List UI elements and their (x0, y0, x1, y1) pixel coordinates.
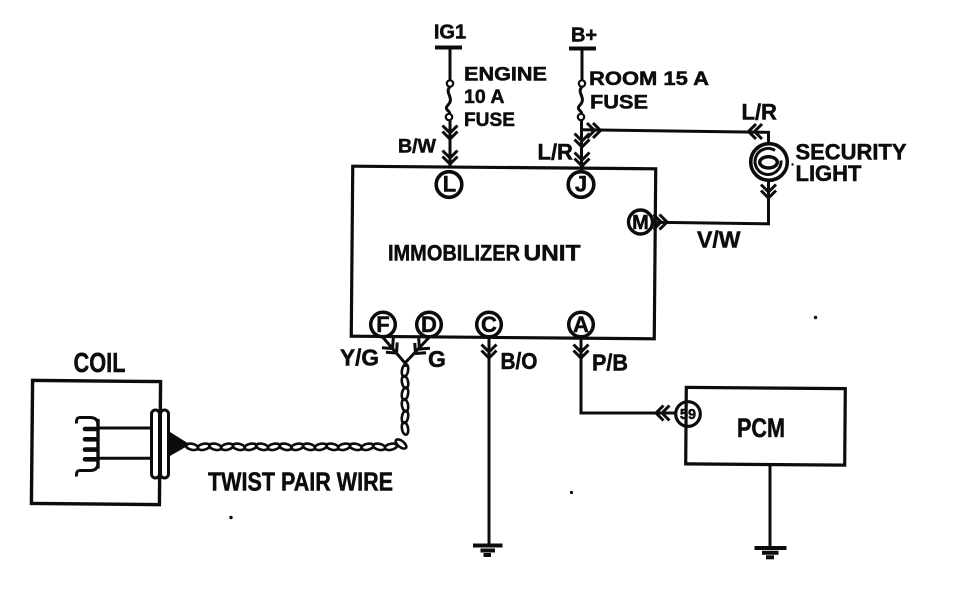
svg-text:D: D (421, 312, 437, 337)
svg-text:V/W: V/W (697, 227, 741, 253)
svg-text:ENGINE: ENGINE (464, 64, 547, 86)
svg-text:FUSE: FUSE (464, 109, 515, 131)
svg-text:TWIST PAIR WIRE: TWIST PAIR WIRE (208, 467, 393, 497)
svg-text:B/O: B/O (501, 348, 538, 374)
svg-text:A: A (573, 312, 589, 337)
svg-text:G: G (428, 346, 446, 372)
svg-text:M: M (632, 212, 649, 234)
svg-text:L: L (443, 172, 456, 197)
svg-text:F: F (376, 312, 389, 337)
svg-text:UNIT: UNIT (524, 241, 581, 266)
svg-text:10 A: 10 A (464, 86, 504, 108)
svg-text:J: J (575, 172, 587, 197)
svg-text:PCM: PCM (737, 413, 785, 443)
svg-text:L/R: L/R (538, 140, 574, 165)
svg-text:59: 59 (680, 407, 696, 423)
svg-text:C: C (481, 312, 497, 337)
svg-text:COIL: COIL (74, 347, 126, 378)
svg-text:Y/G: Y/G (340, 345, 379, 371)
svg-text:FUSE: FUSE (590, 92, 648, 114)
svg-text:ROOM 15 A: ROOM 15 A (589, 68, 709, 90)
svg-text:B/W: B/W (398, 136, 437, 158)
svg-text:B+: B+ (571, 25, 597, 47)
svg-text:IG1: IG1 (434, 22, 466, 44)
svg-text:IMMOBILIZER: IMMOBILIZER (388, 241, 520, 266)
svg-text:L/R: L/R (742, 100, 778, 125)
svg-text:P/B: P/B (592, 350, 628, 376)
svg-text:LIGHT: LIGHT (796, 161, 863, 186)
